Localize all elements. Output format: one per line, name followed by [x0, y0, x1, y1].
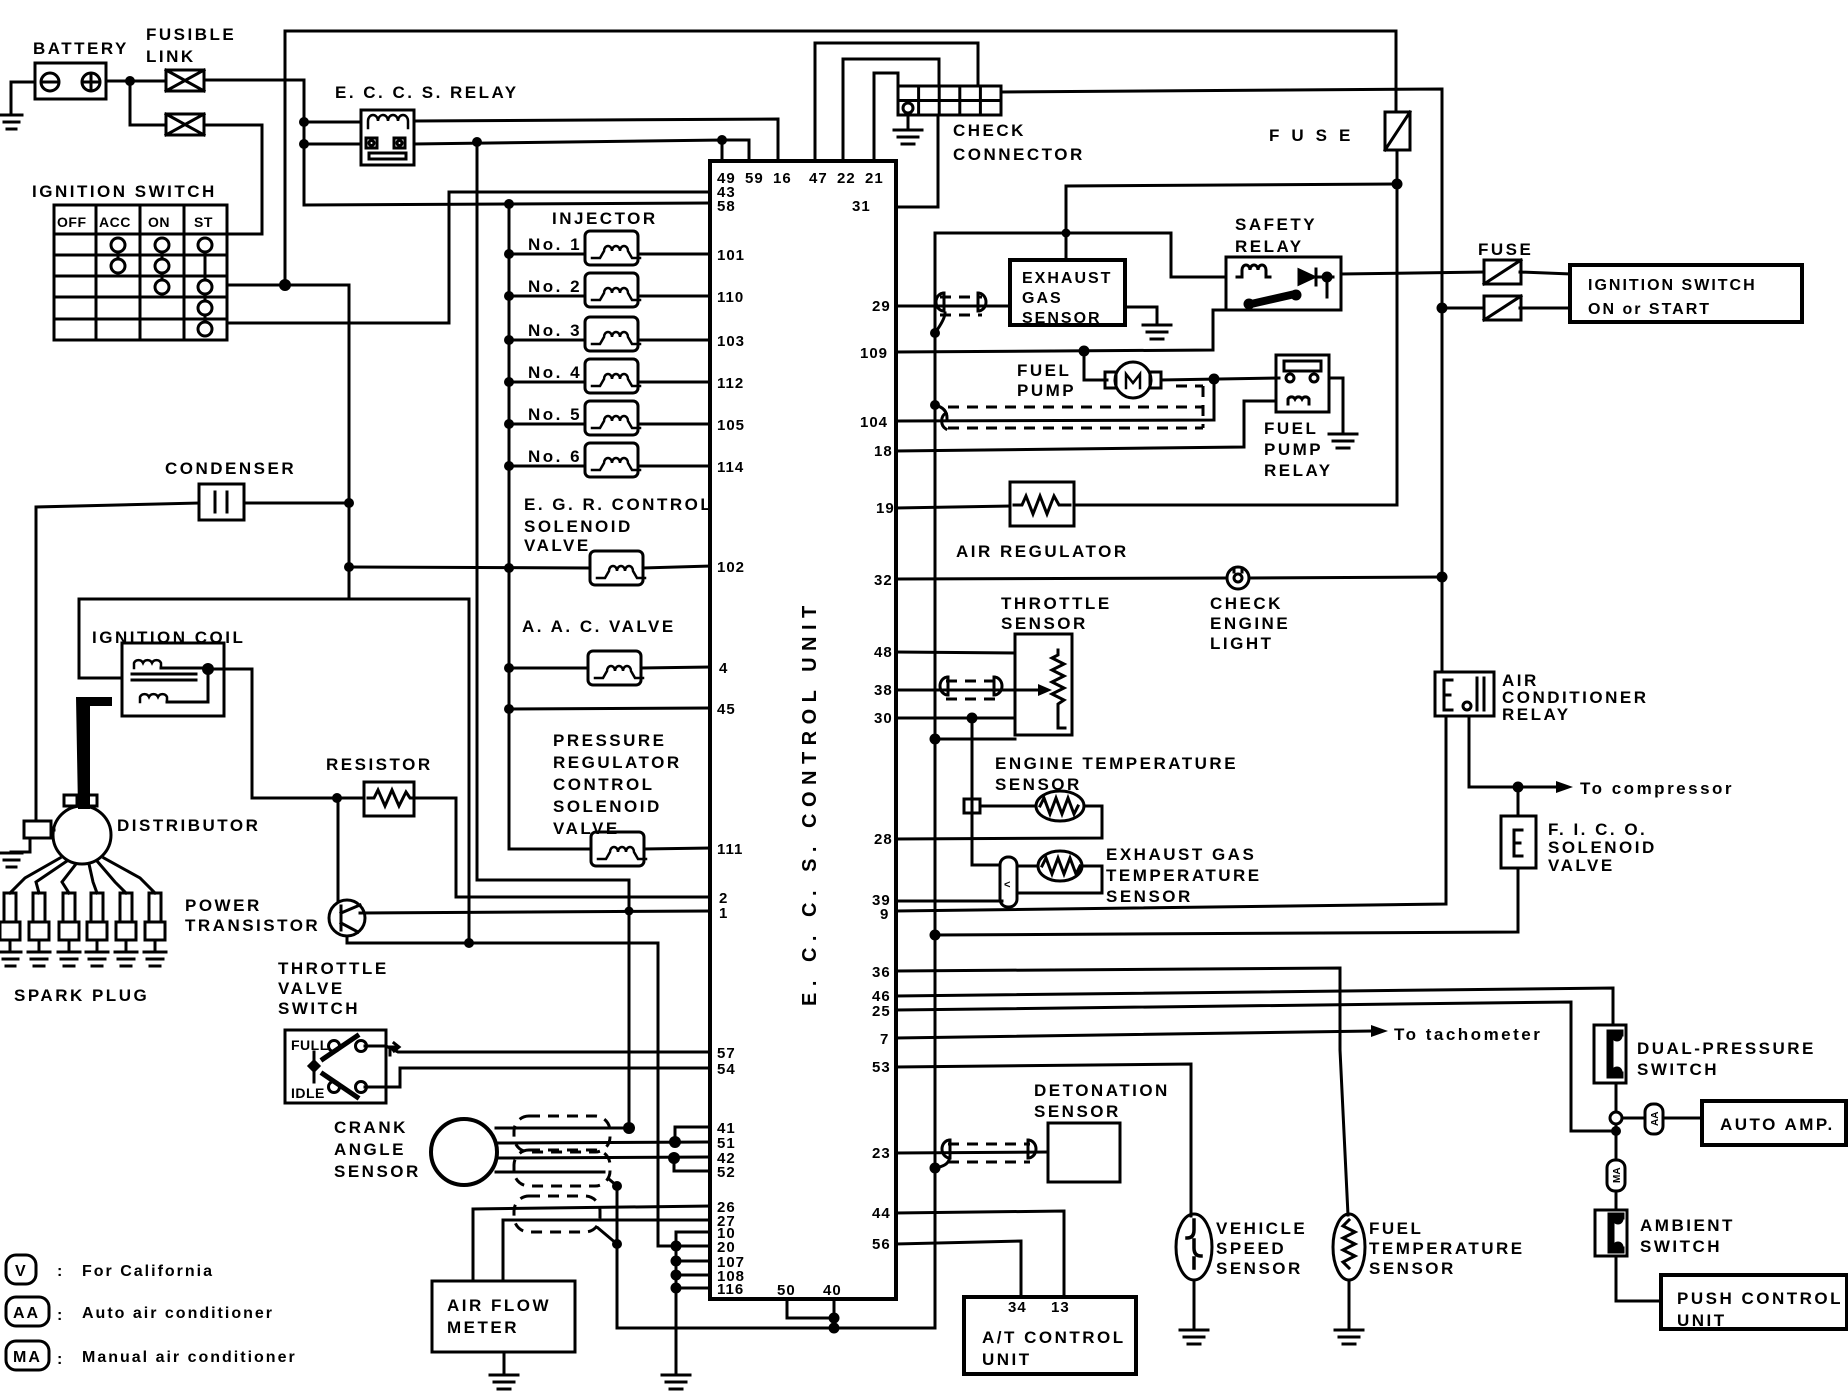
node pin49 stub — [717, 135, 727, 145]
svg-text:TEMPERATURE: TEMPERATURE — [1369, 1239, 1525, 1258]
fusible link FL1 — [166, 70, 204, 91]
svg-text:For California: For California — [82, 1263, 214, 1280]
svg-text:ACC: ACC — [99, 214, 131, 230]
svg-text:SPEED: SPEED — [1216, 1239, 1286, 1258]
E.C.C.S. control unit box — [710, 161, 896, 1299]
wire AFM to pin 26 — [473, 1206, 710, 1281]
svg-text:111: 111 — [717, 841, 743, 858]
svg-text:FULL: FULL — [291, 1037, 329, 1053]
svg-text::: : — [57, 1307, 64, 1324]
node EGR bus junction — [504, 563, 514, 573]
wire EGS to ground — [1125, 307, 1157, 324]
wire pin 104 shielded to relay — [896, 379, 1214, 421]
node safety relay diode out — [1322, 272, 1333, 283]
svg-text:FUEL: FUEL — [1017, 361, 1071, 380]
svg-text:LIGHT: LIGHT — [1210, 634, 1274, 653]
throttle sensor box — [1015, 634, 1072, 735]
svg-text:ST: ST — [194, 214, 213, 230]
node FICO tap — [1513, 782, 1524, 793]
wire fuse F1 down to air regulator — [1074, 150, 1397, 505]
ignition switch contacts — [111, 238, 212, 336]
wire pin 21 to check connector — [874, 73, 898, 161]
node coil left — [299, 117, 309, 127]
svg-text:FUSIBLE: FUSIBLE — [146, 25, 236, 44]
svg-text:CHECK: CHECK — [1210, 594, 1283, 613]
svg-text:25: 25 — [872, 1003, 891, 1020]
svg-text:EXHAUST: EXHAUST — [1022, 270, 1112, 287]
node throttle switch common — [307, 1059, 321, 1073]
wire safety relay bottom to pin 109 — [896, 310, 1226, 352]
node battery junction — [125, 76, 135, 86]
wire ignition coil top bus — [79, 599, 469, 944]
F.I.C.O. solenoid valve V4 — [1501, 816, 1536, 868]
svg-text:SENSOR: SENSOR — [1106, 887, 1193, 906]
node CAS shield to riser — [623, 1122, 635, 1134]
svg-text:THROTTLE: THROTTLE — [278, 959, 389, 978]
wire battery positive to fusible links — [106, 80, 166, 83]
svg-text:45: 45 — [717, 701, 736, 718]
svg-text:SWITCH: SWITCH — [1637, 1060, 1719, 1079]
node fuel pump feed — [1079, 346, 1090, 357]
wire AFM shield link — [598, 1228, 617, 1244]
wire motor to relay contact — [1161, 378, 1279, 380]
svg-text:No. 5: No. 5 — [528, 405, 582, 424]
engine temperature sensor TS1 — [1036, 791, 1084, 821]
svg-text:7: 7 — [880, 1031, 889, 1048]
legend MA Manual air conditioner — [6, 1341, 49, 1370]
svg-text:21: 21 — [865, 170, 884, 187]
svg-text:INJECTOR: INJECTOR — [552, 209, 658, 228]
svg-text:AA: AA — [13, 1305, 40, 1322]
wire pin 22 to check connector — [843, 59, 939, 161]
spark plugs SP1-SP6 — [0, 893, 165, 951]
air regulator box — [1010, 482, 1074, 526]
push control unit box — [1661, 1275, 1847, 1329]
exhaust gas temperature sensor TS2 — [1038, 851, 1082, 881]
svg-text:AA: AA — [1650, 1112, 1661, 1126]
svg-text:RELAY: RELAY — [1235, 237, 1304, 256]
CAS shield dashed box — [514, 1116, 610, 1186]
svg-text:LINK: LINK — [146, 47, 196, 66]
node emitter-coil junction — [464, 938, 474, 948]
svg-text:MA: MA — [13, 1349, 42, 1366]
svg-text:ANGLE: ANGLE — [334, 1140, 406, 1159]
wire pin 31 to check connector — [896, 115, 938, 207]
wire battery negative to ground — [11, 82, 35, 114]
svg-text:28: 28 — [874, 831, 893, 848]
injector supply bus — [509, 204, 591, 849]
svg-text:CHECK: CHECK — [953, 121, 1026, 140]
MA connector oval — [1607, 1160, 1625, 1191]
wire junction down to fusible link 2 — [130, 81, 166, 125]
wire transistor base from resistor node — [337, 798, 338, 900]
svg-text:16: 16 — [773, 170, 792, 187]
throttle switch actuator mark — [390, 1043, 399, 1055]
legend AA Auto air conditioner — [6, 1297, 49, 1326]
crank angle sensor CAS — [431, 1119, 497, 1185]
wire ambient switch to push control unit — [1616, 1256, 1661, 1301]
node AFM shield drain — [612, 1239, 622, 1249]
wire branch to pin 59 — [722, 140, 749, 161]
svg-text:VEHICLE: VEHICLE — [1216, 1219, 1307, 1238]
svg-text:54: 54 — [717, 1061, 736, 1078]
svg-text::: : — [57, 1263, 64, 1280]
svg-text:GAS: GAS — [1022, 290, 1063, 307]
svg-text:FUEL: FUEL — [1369, 1219, 1423, 1238]
svg-text:Auto air conditioner: Auto air conditioner — [82, 1305, 274, 1322]
detonation sensor box — [1048, 1123, 1120, 1182]
svg-text:19: 19 — [876, 500, 895, 517]
svg-text:PRESSURE: PRESSURE — [553, 731, 667, 750]
ambient switch S4 — [1595, 1210, 1627, 1256]
svg-text:112: 112 — [717, 375, 744, 392]
svg-text:114: 114 — [717, 459, 744, 476]
fuel pump relay K3 — [1276, 355, 1329, 412]
node contact left — [299, 139, 309, 149]
svg-text:52: 52 — [717, 1164, 736, 1181]
wire throttle switch FULL to pin 57 — [365, 1046, 710, 1052]
svg-text:MA: MA — [1612, 1167, 1623, 1183]
svg-text:SPARK PLUG: SPARK PLUG — [14, 986, 149, 1005]
wire safety relay to fuse F2 and ignition switch — [1341, 272, 1484, 274]
node shield return — [1209, 374, 1220, 385]
svg-text:CONDENSER: CONDENSER — [165, 459, 296, 478]
fuel temperature sensor TS3 — [1333, 1214, 1365, 1280]
svg-text:DETONATION: DETONATION — [1034, 1081, 1170, 1100]
wire fuse F3 to ignition switch box — [1442, 307, 1484, 310]
wire CAS shield drain to ground bus — [610, 233, 1226, 1328]
wire temp sensor supply riser — [971, 718, 974, 865]
svg-text:18: 18 — [874, 443, 893, 460]
wire pickup to ground — [11, 838, 30, 852]
wire AC relay feed riser — [1441, 308, 1444, 672]
wire AFM ground stem — [503, 1352, 506, 1374]
safety relay K2 — [1226, 257, 1341, 310]
svg-text:PUMP: PUMP — [1264, 440, 1323, 459]
wire ignition ST row to pin 43 — [227, 192, 710, 323]
ignition coil T1 — [79, 643, 224, 716]
transistor Q1 — [329, 900, 365, 936]
svg-text:47: 47 — [809, 170, 828, 187]
wire VSS to ground — [1193, 1280, 1196, 1329]
svg-text:E. G. R. CONTROL: E. G. R. CONTROL — [524, 495, 713, 514]
wire FICO return to shield bus — [935, 868, 1518, 935]
svg-text:58: 58 — [717, 198, 736, 215]
svg-text:RELAY: RELAY — [1502, 705, 1571, 724]
wire AC relay to compressor — [1469, 716, 1556, 787]
wire EGS feed — [1066, 184, 1397, 260]
node bus 58 — [504, 199, 514, 209]
svg-text:TEMPERATURE: TEMPERATURE — [1106, 866, 1262, 885]
exhaust gas sensor box — [1010, 260, 1125, 325]
svg-text:VALVE: VALVE — [1548, 856, 1615, 875]
wire FL2 to ignition switch — [204, 125, 262, 234]
svg-text:CONTROL: CONTROL — [553, 775, 655, 794]
ground battery — [1, 115, 22, 129]
svg-text:Manual air conditioner: Manual air conditioner — [82, 1349, 297, 1366]
svg-text:102: 102 — [717, 559, 745, 576]
node shield bus FICO — [930, 930, 941, 941]
wire AAC valve — [509, 667, 588, 670]
wire relay coil to pin 18 — [896, 401, 1276, 451]
svg-text:UNIT: UNIT — [1677, 1311, 1727, 1330]
svg-text:VALVE: VALVE — [553, 819, 620, 838]
wire pin 45 — [509, 708, 710, 709]
wire EGTS supply — [972, 864, 1000, 867]
svg-text:36: 36 — [872, 964, 891, 981]
svg-text::: : — [57, 1351, 64, 1368]
svg-text:DUAL-PRESSURE: DUAL-PRESSURE — [1637, 1039, 1816, 1058]
ground AFM — [490, 1375, 518, 1389]
svg-text:4: 4 — [719, 660, 728, 677]
svg-text:IDLE: IDLE — [291, 1085, 325, 1101]
svg-text:V: V — [15, 1263, 28, 1280]
svg-text:32: 32 — [874, 572, 893, 589]
wire pin 39 to EGTS — [896, 900, 1002, 903]
svg-text:SENSOR: SENSOR — [1001, 614, 1088, 633]
wire resistor to pin 2 — [414, 798, 710, 897]
svg-text:38: 38 — [874, 682, 893, 699]
wire pin 46 to dual pressure switch — [896, 988, 1613, 1025]
svg-text:101: 101 — [717, 247, 745, 264]
svg-text:104: 104 — [860, 414, 888, 431]
fuse F2 — [1484, 260, 1521, 284]
svg-text:SENSOR: SENSOR — [1034, 1102, 1121, 1121]
svg-text:103: 103 — [717, 333, 745, 350]
svg-text:34: 34 — [1008, 1299, 1027, 1316]
fuse F3 — [1484, 296, 1521, 320]
svg-text:FUEL: FUEL — [1264, 419, 1318, 438]
condenser C1 — [199, 484, 244, 520]
AA connector oval — [1645, 1104, 1663, 1134]
svg-text:105: 105 — [717, 417, 745, 434]
svg-text:FUSE: FUSE — [1269, 126, 1362, 145]
wire ECCS relay contact left — [304, 143, 361, 146]
wire check engine light to AC feed riser — [1249, 577, 1442, 578]
svg-text:56: 56 — [872, 1236, 891, 1253]
wire top bus from ON node to fuse F1 — [285, 31, 1396, 285]
svg-text:A. A. C. VALVE: A. A. C. VALVE — [522, 617, 676, 636]
wire ignition ON row to coil feed riser — [227, 285, 349, 599]
injector No.4 — [585, 359, 640, 393]
svg-text:SWITCH: SWITCH — [1640, 1237, 1722, 1256]
ground ECU bus — [662, 1375, 690, 1389]
node EGR feed junction — [344, 562, 354, 572]
svg-text:AUTO AMP.: AUTO AMP. — [1720, 1115, 1835, 1134]
svg-text:48: 48 — [874, 644, 893, 661]
svg-text:50: 50 — [777, 1282, 796, 1299]
wire pin 30 to sensor supply — [896, 717, 1015, 720]
svg-text:116: 116 — [717, 1281, 744, 1298]
svg-text:SAFETY: SAFETY — [1235, 215, 1317, 234]
wire check connector ground — [907, 115, 910, 129]
svg-text:ENGINE: ENGINE — [1210, 614, 1290, 633]
injector No.1 — [585, 231, 640, 265]
node safety relay coil tap — [1062, 229, 1071, 238]
wire FICO feed — [1517, 787, 1520, 816]
wire pin 48 to throttle sensor — [896, 652, 1015, 653]
wire pin 50 stub — [787, 1299, 834, 1318]
EGS connector dashed — [940, 297, 982, 315]
svg-text:A/T CONTROL: A/T CONTROL — [982, 1328, 1126, 1347]
distributor pickup — [24, 821, 54, 838]
wire ETS return to pin 28 — [896, 806, 1102, 839]
exhaust gas temperature sensor connector — [1000, 857, 1017, 907]
svg-text:TRANSISTOR: TRANSISTOR — [185, 916, 320, 935]
node ON feed — [279, 279, 291, 291]
ground FTS — [1335, 1330, 1363, 1344]
fuse F1 — [1385, 112, 1410, 150]
fuel pump shield dashed — [948, 386, 1203, 428]
air flow meter box — [432, 1281, 575, 1352]
dual-pressure switch S3 — [1594, 1025, 1626, 1083]
ground EGS — [1143, 325, 1171, 339]
svg-text:57: 57 — [717, 1045, 736, 1062]
svg-text:E. C. C. S. RELAY: E. C. C. S. RELAY — [335, 83, 519, 102]
svg-text:110: 110 — [717, 289, 744, 306]
wire MA to ambient switch — [1615, 1191, 1618, 1210]
node 41-51 — [669, 1136, 681, 1148]
svg-text:1: 1 — [719, 905, 728, 922]
auto amp box — [1702, 1101, 1846, 1145]
svg-text:SOLENOID: SOLENOID — [524, 517, 633, 536]
wire pin 44 to A/T control unit pin 13 — [896, 1211, 1064, 1297]
svg-text:VALVE: VALVE — [278, 979, 345, 998]
svg-text:AIR FLOW: AIR FLOW — [447, 1296, 551, 1315]
svg-text:CRANK: CRANK — [334, 1118, 408, 1137]
ignition coil HT lead (thick) — [76, 697, 112, 809]
svg-text:30: 30 — [874, 710, 893, 727]
wire pin 36 to fuel temperature sensor — [896, 968, 1348, 1215]
ECU ground bus pins 10/20/107/108/116 — [676, 1232, 710, 1374]
svg-text:PUMP: PUMP — [1017, 381, 1076, 400]
wire AFM to pin 27 — [503, 1220, 710, 1281]
svg-text:REGULATOR: REGULATOR — [553, 753, 682, 772]
svg-text:SWITCH: SWITCH — [278, 999, 360, 1018]
svg-text:44: 44 — [872, 1205, 891, 1222]
wire EGTS return loop — [1017, 866, 1102, 893]
svg-text:SENSOR: SENSOR — [1369, 1259, 1456, 1278]
svg-text:E. C. C. S. CONTROL UNIT: E. C. C. S. CONTROL UNIT — [799, 599, 821, 1006]
wire check connector to fuse F3 branch — [1001, 89, 1442, 308]
svg-text:40: 40 — [823, 1282, 842, 1299]
wire AA to auto amp box — [1663, 1117, 1702, 1120]
svg-text:59: 59 — [745, 170, 764, 187]
svg-text:29: 29 — [872, 298, 891, 315]
wire pin 23 shielded to detonation sensor — [896, 1152, 1048, 1153]
air flow meter dashed shield — [514, 1196, 600, 1232]
wire relay output riser down to pin2 area — [477, 142, 629, 1128]
vehicle speed sensor VSS — [1176, 1214, 1212, 1280]
wire pin 56 to A/T control unit pin 34 — [896, 1241, 1021, 1297]
CAS wires — [496, 1128, 710, 1172]
wire pin 53 to vehicle speed sensor — [896, 1064, 1191, 1216]
wire transistor collector to pin 1 — [360, 911, 710, 913]
wire FTS to ground — [1348, 1280, 1351, 1329]
svg-text:BATTERY: BATTERY — [33, 39, 129, 58]
wire EGR feed — [349, 567, 590, 568]
ground check connector — [894, 130, 922, 144]
svg-text:SENSOR: SENSOR — [1216, 1259, 1303, 1278]
fusible link FL2 — [166, 114, 204, 135]
svg-text:To tachometer: To tachometer — [1394, 1025, 1542, 1044]
distributor cap leads — [10, 858, 155, 893]
node AA branch — [1610, 1112, 1622, 1124]
svg-text:AIR REGULATOR: AIR REGULATOR — [956, 542, 1129, 561]
svg-text:UNIT: UNIT — [982, 1350, 1032, 1369]
wire throttle switch IDLE to pin 54 — [365, 1068, 710, 1087]
svg-text:VALVE: VALVE — [524, 536, 591, 555]
svg-text:No. 6: No. 6 — [528, 447, 582, 466]
ground VSS — [1180, 1330, 1208, 1344]
ground fuel pump relay — [1329, 434, 1357, 448]
throttle valve switch S2 — [285, 1030, 386, 1103]
wire coil tap to resistor feed — [208, 669, 364, 798]
wire AA node to auto amp — [1622, 1117, 1644, 1120]
EGR control solenoid valve V1 — [590, 551, 645, 585]
wire pin 25 to MA branch — [896, 1002, 1616, 1131]
wire ECCS relay upper output to pin 16 — [414, 119, 778, 161]
svg-text:EXHAUST GAS: EXHAUST GAS — [1106, 845, 1256, 864]
ground distributor — [1, 853, 22, 867]
wire DPS to AA node — [1615, 1083, 1618, 1112]
engine temperature sensor terminal — [964, 799, 980, 813]
node shield bus throttle return — [930, 734, 941, 745]
svg-text:13: 13 — [1051, 1299, 1070, 1316]
wire pin41 jog — [675, 1127, 710, 1142]
svg-text:SENSOR: SENSOR — [334, 1162, 421, 1181]
svg-text:SENSOR: SENSOR — [1022, 310, 1102, 327]
node collector riser — [625, 907, 634, 916]
ignition switch S1 table — [54, 205, 227, 340]
svg-text:22: 22 — [837, 170, 856, 187]
wire pin52 jog — [674, 1158, 710, 1171]
svg-text:9: 9 — [880, 906, 889, 923]
svg-text:F. I. C. O.: F. I. C. O. — [1548, 820, 1647, 839]
svg-text:PUSH CONTROL: PUSH CONTROL — [1677, 1289, 1843, 1308]
wire transistor emitter to ground bus — [347, 936, 676, 1246]
injector No.3 — [585, 317, 640, 351]
svg-text:109: 109 — [860, 345, 888, 362]
wire pin 47 to check connector — [815, 43, 978, 161]
A.A.C. valve V2 — [588, 651, 643, 685]
node condenser junction — [344, 498, 354, 508]
node coil secondary tap — [202, 663, 214, 675]
node detonation shield tap — [930, 1163, 941, 1174]
svg-text:METER: METER — [447, 1318, 519, 1337]
distributor D1 — [53, 795, 111, 864]
wire pin 29 to EGS — [896, 305, 1010, 308]
svg-text:31: 31 — [852, 198, 871, 215]
wire ECCS relay lower output to pins 49 and 59 — [414, 140, 722, 161]
node fuse2 branch — [1437, 303, 1448, 314]
wire FL1 to pin58 riser — [204, 80, 710, 205]
wire ECCS relay coil left — [304, 121, 361, 124]
svg-text:THROTTLE: THROTTLE — [1001, 594, 1112, 613]
node shield drain top — [612, 1181, 622, 1191]
node CEL riser — [1437, 572, 1448, 583]
air conditioner relay K4 — [1435, 672, 1494, 716]
check connector CN1 — [898, 86, 1001, 115]
node EGS shield tap — [930, 328, 940, 338]
svg-text:No. 4: No. 4 — [528, 363, 582, 382]
svg-text:IGNITION SWITCH: IGNITION SWITCH — [1588, 277, 1757, 294]
svg-text:SOLENOID: SOLENOID — [553, 797, 662, 816]
svg-text:ON: ON — [148, 214, 170, 230]
A/T control unit box — [964, 1297, 1136, 1374]
svg-text:POWER: POWER — [185, 896, 262, 915]
battery B1 — [35, 63, 106, 99]
